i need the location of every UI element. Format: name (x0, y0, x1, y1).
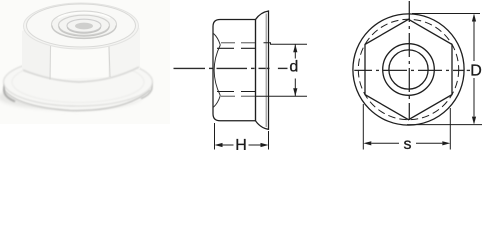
dimension H: dimension line with arrows (215, 143, 269, 147)
svg-text:D: D (470, 62, 482, 79)
photo: body left/right silhouette shading (21, 31, 23, 72)
photo: shadow under flange (0, 84, 142, 110)
dimension s: extension lines (363, 104, 450, 150)
front view: horizontal center line (354, 69, 470, 71)
side view: center line (174, 67, 288, 69)
front view: outer flange circle (353, 14, 464, 125)
photo: hex body middle facet (51, 15, 108, 79)
photo background (0, 0, 170, 124)
photo: body/flange junction shade (23, 67, 139, 82)
dimension D: dimension line with arrows (472, 14, 476, 125)
front view: hexagon (365, 19, 452, 119)
dimension d: dimension line with arrows (293, 44, 297, 96)
front view: vertical center line (408, 1, 410, 120)
svg-text:s: s (404, 136, 412, 150)
side view: flange inner face line (265, 14, 267, 128)
photo: top face (24, 3, 139, 49)
dimension H: extension lines (215, 123, 269, 150)
photo: flange base (side wall) (4, 62, 153, 111)
photo: flange left tip accent (4, 79, 15, 102)
front view: thread hole circle (389, 50, 428, 89)
front view: chamfer circle (383, 44, 435, 96)
photo: hex body right facet (108, 15, 140, 77)
photo: hex body left facet (22, 17, 51, 79)
side view: thread minor dashed lines (217, 47, 256, 49)
side view: hex body outline (213, 20, 256, 121)
side view: chamfer facet arcs (214, 34, 221, 46)
photo: thread rings (52, 11, 117, 38)
front view: dashed circumscribed circle (358, 19, 458, 119)
side view: thread major dashed lines (221, 42, 256, 44)
photo: flange top surface (4, 58, 153, 106)
svg-text:d: d (289, 59, 298, 76)
dimension d: extension lines (256, 43, 308, 96)
side view: flange profile (256, 11, 269, 129)
svg-text:H: H (235, 137, 247, 150)
side view: hex/flange junction line (255, 20, 257, 121)
dimension s: dimension line with arrows (363, 141, 450, 145)
photo: flange right tip accent (141, 76, 152, 99)
photo: hex facet edge lines (50, 17, 51, 80)
dimension D: extension lines (407, 14, 482, 125)
